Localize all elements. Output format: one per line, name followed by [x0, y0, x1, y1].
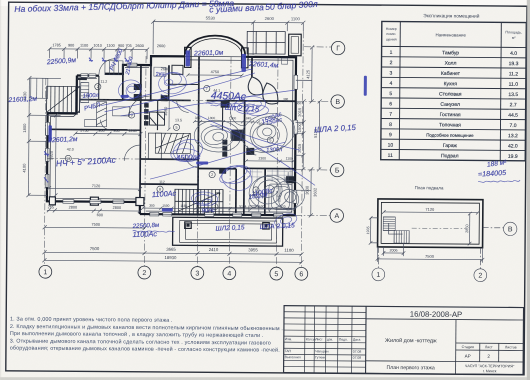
outside landing left [31, 78, 48, 98]
room number circles [65, 83, 274, 210]
blue highlight marks [48, 49, 367, 213]
top dim row 2 [151, 20, 305, 56]
right dim col [295, 45, 322, 217]
bay chord lines [185, 56, 244, 60]
bottom dim rows [42, 250, 303, 264]
double door leaf curves [248, 77, 278, 104]
hatched duct in cabinet [96, 102, 106, 127]
outside stair left [47, 86, 80, 112]
inner wall face lines [50, 58, 293, 212]
chimney block [289, 34, 302, 56]
interior dim row under wall 101 [193, 120, 260, 124]
porch terrace [173, 217, 283, 246]
fixtures [80, 57, 293, 213]
extra partitions [98, 76, 223, 160]
left dim col [26, 76, 60, 197]
basement stair [383, 217, 409, 243]
scanner edge bands [527, 0, 530, 380]
blue long strokes [100, 68, 521, 235]
title block grid [284, 306, 524, 375]
garage inner dims [43, 131, 148, 230]
bay window arc [184, 35, 248, 67]
bathroom tile grid [247, 169, 293, 182]
basement outer walls [378, 199, 483, 248]
shower cabin [150, 112, 165, 125]
blue handwriting top lines [6, 0, 509, 242]
small rooms partitions [169, 65, 199, 84]
desk in cabinet [84, 107, 129, 127]
blue scribble clouds [193, 108, 306, 212]
entry steps top [105, 61, 123, 75]
pergola grid top right [247, 31, 285, 54]
door arcs [98, 59, 257, 168]
table header text [386, 27, 522, 43]
inner misc dims [149, 44, 302, 209]
interior walls [47, 55, 296, 215]
notes text [10, 317, 283, 354]
top dim row 1 [48, 47, 150, 59]
garage bottom piers [49, 197, 144, 206]
room inner dims right block [244, 159, 294, 202]
main plan outer walls [47, 55, 296, 215]
bay width dim 4750 [186, 73, 243, 77]
internal stair by tambour [148, 133, 190, 159]
blue window tick marks [44, 57, 129, 183]
basement dim 7120 [369, 210, 485, 263]
vent shafts (dark) [76, 78, 295, 184]
windows [45, 62, 298, 217]
explication table grid [381, 21, 527, 160]
axis dash-dot lines [44, 29, 333, 267]
basement axis lines and circles [372, 221, 517, 282]
table rows text [387, 50, 518, 160]
bottom axis circles [39, 39, 345, 280]
central staircase [175, 189, 223, 214]
